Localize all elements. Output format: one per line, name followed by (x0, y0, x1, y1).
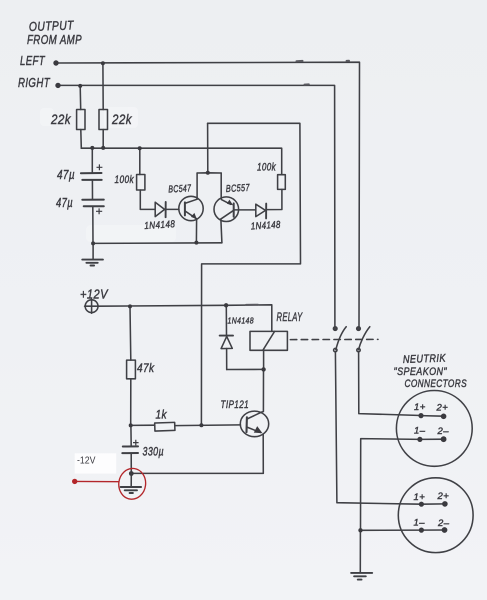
connector J2 speakon bottom (398, 478, 473, 553)
node base TIP (129, 423, 133, 427)
svg-text:RELAY: RELAY (277, 310, 303, 324)
svg-text:1N4148: 1N4148 (144, 219, 176, 232)
red circle annotation (117, 467, 147, 501)
node LEFT input (53, 60, 58, 65)
ground GND2 (351, 572, 372, 574)
svg-text:FROM AMP: FROM AMP (27, 32, 82, 47)
svg-text:1–: 1– (414, 518, 426, 529)
svg-text:22k: 22k (111, 111, 132, 127)
svg-text:47µ: 47µ (56, 196, 73, 210)
node bus 100k (138, 146, 142, 150)
svg-text:NEUTRIK: NEUTRIK (403, 353, 447, 366)
transistor Q2 BC557 (214, 197, 239, 222)
wire Q2 emitter down (221, 220, 222, 243)
diode D1 1N4148 (155, 202, 164, 216)
wire right22k bottom lead (102, 130, 104, 149)
red annotation (75, 467, 148, 501)
plus C1 (97, 164, 103, 170)
node 330u bottom (129, 471, 134, 476)
svg-text:2–: 2– (437, 426, 450, 437)
wire Q1 collector up (196, 173, 198, 199)
wire cap branch (91, 148, 93, 173)
wire Q1 emitter down (195, 219, 197, 243)
node ground bus bottom (358, 528, 362, 532)
svg-text:TIP121: TIP121 (221, 399, 250, 411)
wire +12V rail (98, 305, 272, 332)
wire ground bus down (359, 530, 361, 572)
eraser patches (40, 107, 176, 242)
wire base line 1k (131, 424, 155, 426)
node 12v diode (224, 303, 228, 307)
arrow Q2 emitter (227, 200, 233, 206)
wire relay bottom to collector node (263, 350, 265, 369)
svg-text:2+: 2+ (436, 403, 449, 414)
resistor R2 22k right (99, 110, 108, 130)
node comparator top (197, 172, 221, 174)
wire RIGHT bus top (58, 85, 335, 327)
svg-text:2+: 2+ (437, 491, 450, 502)
relay actuation dashed line (290, 338, 378, 340)
svg-text:330µ: 330µ (143, 447, 165, 459)
transistor Q3 TIP121 (240, 411, 268, 437)
resistor R6 1k (155, 422, 175, 431)
wire 330u top lead (130, 426, 132, 447)
wire between caps (91, 180, 93, 200)
speakon J2 terminals (419, 502, 424, 507)
diode D3 1N4148 flyback (225, 305, 227, 335)
wire cap2 to gnd node (92, 206, 94, 243)
resistor R1 22k left (77, 110, 85, 130)
svg-text:RIGHT: RIGHT (18, 75, 51, 90)
svg-text:47µ: 47µ (57, 168, 75, 182)
wire S2 down to top speakon 1+ (359, 352, 421, 416)
wire top speakon 1- to ground bus (361, 439, 420, 531)
wire LEFT bus top (56, 62, 360, 327)
svg-text:LEFT: LEFT (20, 53, 46, 68)
svg-text:BC557: BC557 (226, 183, 251, 195)
power +12V symbol (85, 300, 98, 313)
svg-text:1N4148: 1N4148 (251, 220, 282, 233)
wire left22k top lead (79, 86, 82, 110)
wire mid bus to 100k right (81, 148, 281, 175)
svg-text:47k: 47k (137, 361, 155, 375)
svg-text:2–: 2– (437, 518, 450, 529)
plus C3 (133, 440, 139, 446)
red dot (72, 479, 77, 484)
wire inner loop to TIP base (201, 123, 300, 425)
node emitter bus (194, 241, 198, 245)
red pointer line (75, 480, 119, 482)
wire Q2 top lead (220, 173, 222, 199)
capacitor C3 330u (123, 445, 138, 447)
cap polarity plus signs (96, 164, 139, 445)
node comparator top (206, 171, 210, 175)
relay coil K1 (250, 331, 287, 350)
resistor R3 100k left (137, 175, 145, 191)
ground GND3 (130, 474, 132, 487)
wire S1 down to bottom speakon 1+ (335, 352, 421, 504)
wire 47k bottom lead (130, 379, 132, 426)
svg-text:CONNECTORS: CONNECTORS (405, 378, 468, 390)
svg-text:"SPEAKON": "SPEAKON" (394, 366, 448, 378)
wire 100k left top lead (139, 148, 141, 174)
svg-text:-12V: -12V (77, 456, 96, 467)
wire left22k bottom lead (80, 130, 83, 149)
node bus cap branch (90, 146, 94, 150)
node left line junction (101, 61, 105, 65)
svg-text:1–: 1– (414, 426, 426, 437)
switch S2 right contact (359, 327, 370, 350)
svg-text:+12V: +12V (80, 287, 109, 302)
node right line junction (78, 84, 82, 88)
white patch -12V (75, 453, 117, 473)
node 12v 47k (128, 304, 132, 308)
capacitor C1 47u (81, 172, 102, 174)
node relay bottom (261, 367, 265, 371)
wire 47k top lead (129, 306, 132, 360)
transistor Q1 BC547 (179, 196, 203, 220)
svg-text:100k: 100k (115, 174, 135, 186)
switch S1 left contact (336, 327, 346, 350)
node bus r2 (101, 146, 105, 150)
svg-text:1k: 1k (156, 408, 168, 422)
ground GND1 (92, 244, 94, 260)
wire Q2 base to diode2 (239, 209, 256, 211)
diode D2 1N4148 (256, 204, 266, 216)
svg-text:1+: 1+ (414, 402, 426, 413)
pen overlap marks (246, 61, 349, 305)
plus C2 (96, 208, 102, 214)
svg-text:BC547: BC547 (168, 183, 192, 195)
capacitor C2 47u (82, 199, 104, 201)
svg-text:1N4148: 1N4148 (228, 316, 255, 326)
arrow Q1 emitter (191, 213, 197, 219)
wire ground bus to bottom speakon 1- (361, 529, 422, 531)
node gnd1 (91, 241, 95, 245)
speakon J1 terminals (418, 413, 423, 418)
wire 100k left to diode1 (140, 190, 155, 209)
node RIGHT input (55, 83, 60, 88)
arrow Q3 emitter (254, 426, 263, 433)
resistor R4 100k right (278, 175, 286, 190)
svg-text:100k: 100k (257, 162, 276, 174)
resistor R5 47k (127, 360, 136, 379)
emitter bus (93, 242, 222, 245)
connector J1 speakon top (396, 391, 472, 467)
wire right22k top lead (102, 63, 104, 109)
svg-text:22k: 22k (50, 111, 71, 127)
svg-text:1+: 1+ (414, 492, 426, 503)
wire Q3 emitter down and left (131, 435, 263, 474)
